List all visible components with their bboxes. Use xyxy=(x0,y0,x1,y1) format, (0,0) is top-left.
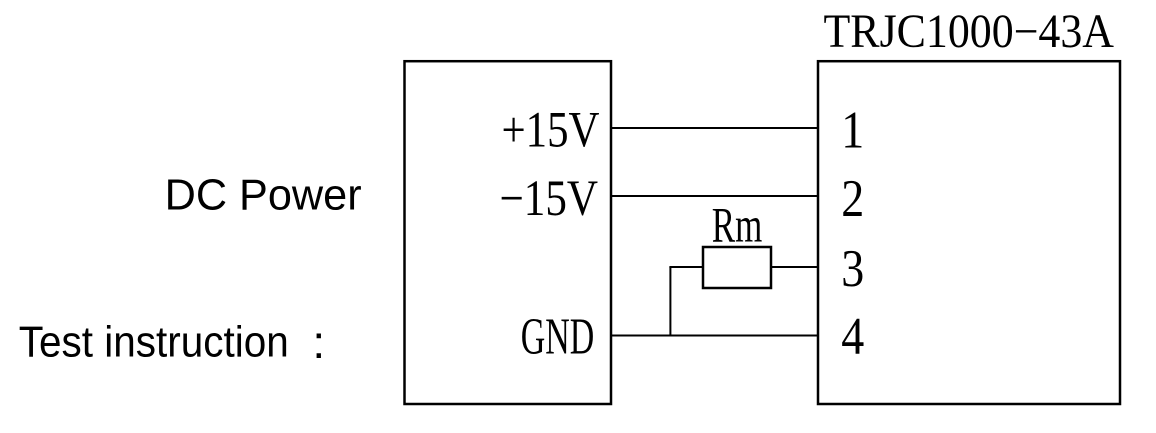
svg-text:DC Power: DC Power xyxy=(165,171,362,220)
svg-text:3: 3 xyxy=(841,240,864,298)
svg-text:Test instruction: Test instruction xyxy=(19,318,289,367)
svg-text:+15V: +15V xyxy=(502,103,600,159)
svg-text:GND: GND xyxy=(521,308,595,365)
svg-text:4: 4 xyxy=(841,308,864,366)
svg-text::: : xyxy=(312,316,325,368)
svg-text:Rm: Rm xyxy=(712,197,763,253)
svg-text:2: 2 xyxy=(841,170,864,228)
svg-text:−15V: −15V xyxy=(500,171,599,227)
svg-text:1: 1 xyxy=(841,101,864,159)
svg-text:TRJC1000−43A: TRJC1000−43A xyxy=(824,6,1115,58)
